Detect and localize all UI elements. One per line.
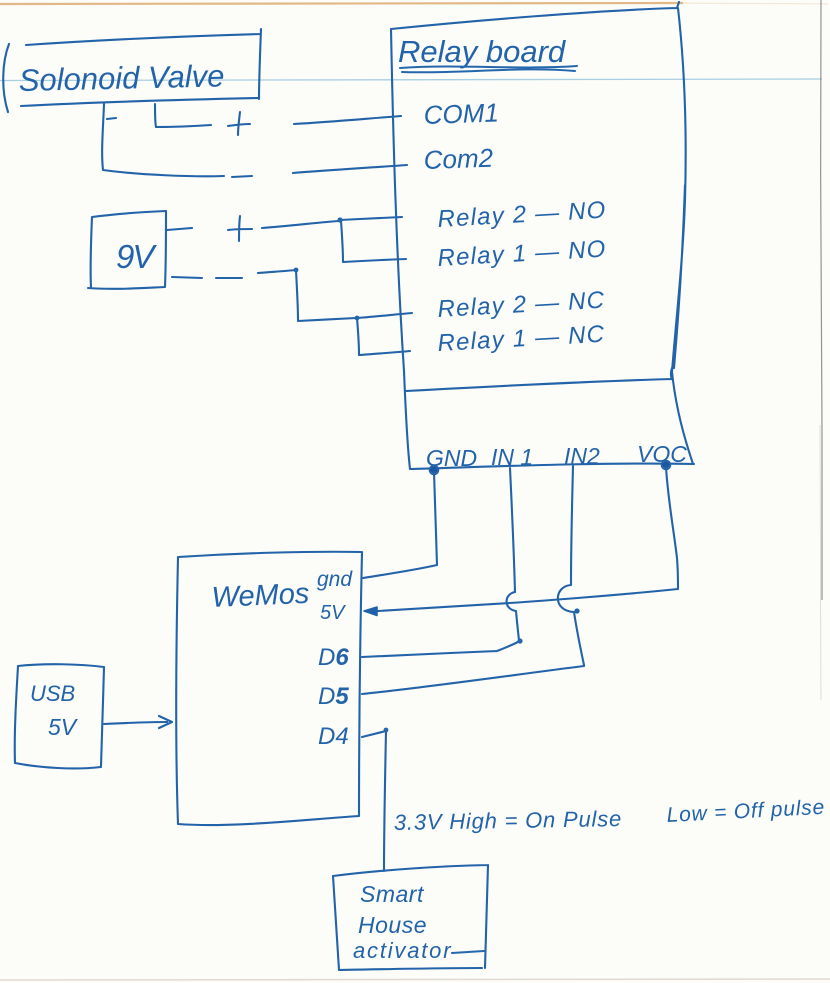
- svg-text:COM1: COM1: [423, 97, 499, 130]
- label Solonoid Valve: [18, 58, 224, 98]
- wire solenoid + to COM1: [107, 104, 401, 127]
- pin label GND: [426, 445, 477, 471]
- node VCC pin dot: [662, 461, 671, 470]
- svg-text:Com2: Com2: [423, 143, 494, 175]
- smart house activator box U3: [333, 865, 488, 970]
- svg-text:D5: D5: [318, 683, 349, 710]
- svg-text:Solonoid Valve: Solonoid Valve: [18, 58, 224, 98]
- relay board box U2: [391, 2, 694, 469]
- annotation Low = Off pulse: [666, 796, 825, 827]
- wire D4 to smart house activator: [362, 728, 388, 871]
- pin label Com2: [423, 143, 494, 175]
- svg-text:3.3V High = On Pulse: 3.3V High = On Pulse: [394, 806, 623, 835]
- pin label 5V: [320, 602, 346, 624]
- wire solenoid - to Com2: [102, 104, 407, 177]
- pin label D4: [318, 723, 349, 750]
- svg-text:USB: USB: [30, 681, 75, 706]
- label 9V: [116, 238, 157, 275]
- node GND pin dot: [430, 466, 439, 475]
- solenoid valve box SV1: [3, 29, 261, 112]
- pin label IN1: [491, 444, 533, 470]
- label USB 5V: [30, 681, 79, 740]
- wire 9V + to Relay2NO and Relay1NO: [167, 217, 406, 262]
- label WeMos: [211, 578, 310, 614]
- pin label COM1: [423, 97, 499, 130]
- svg-text:9V: 9V: [116, 238, 157, 275]
- svg-text:D6: D6: [318, 644, 349, 671]
- pin label D6: [318, 644, 349, 671]
- pin label gnd: [317, 568, 353, 591]
- svg-text:WeMos: WeMos: [211, 578, 310, 614]
- svg-text:5V: 5V: [48, 714, 79, 740]
- svg-text:gnd: gnd: [317, 568, 353, 591]
- svg-text:VOC: VOC: [637, 441, 687, 467]
- label Smart House Activator: [353, 881, 484, 963]
- svg-text:Smart: Smart: [360, 881, 425, 907]
- svg-text:IN2: IN2: [564, 443, 600, 469]
- svg-text:5V: 5V: [320, 602, 346, 624]
- wire USB 5V to WeMos with arrow: [104, 716, 172, 728]
- pin label D5: [318, 683, 349, 710]
- wire VCC to WeMos 5V with arrowhead: [364, 467, 678, 616]
- wire IN1 to WeMos D6 with hop: [362, 468, 523, 657]
- battery 9V box BT1: [88, 211, 166, 289]
- svg-text:House: House: [358, 912, 427, 938]
- plus sign at solenoid wire: [228, 112, 250, 135]
- wire 9V - to Relay2NC and Relay1NC: [172, 268, 412, 355]
- pin label VCC: [637, 441, 687, 467]
- svg-text:GND: GND: [426, 445, 477, 471]
- label Relay board: [398, 34, 577, 72]
- pin label Relay 1 - NO: [437, 236, 607, 272]
- svg-text:IN 1: IN 1: [491, 444, 533, 470]
- pin label IN2: [564, 443, 600, 469]
- svg-text:Relay board: Relay board: [398, 34, 567, 69]
- pin label Relay 2 - NO: [437, 197, 607, 233]
- wire IN2 to WeMos D5 with hop: [362, 466, 584, 694]
- usb power box J1: [15, 664, 104, 768]
- pin label Relay 1 - NC: [437, 321, 606, 357]
- annotation 3.3V High = On Pulse: [394, 806, 623, 835]
- wemos board U1: [176, 552, 362, 825]
- plus sign at 9V wire: [228, 216, 252, 241]
- pin label Relay 2 - NC: [437, 287, 606, 323]
- wire GND to WeMos gnd: [363, 472, 437, 578]
- svg-text:D4: D4: [318, 723, 349, 750]
- svg-text:activator: activator: [353, 938, 452, 963]
